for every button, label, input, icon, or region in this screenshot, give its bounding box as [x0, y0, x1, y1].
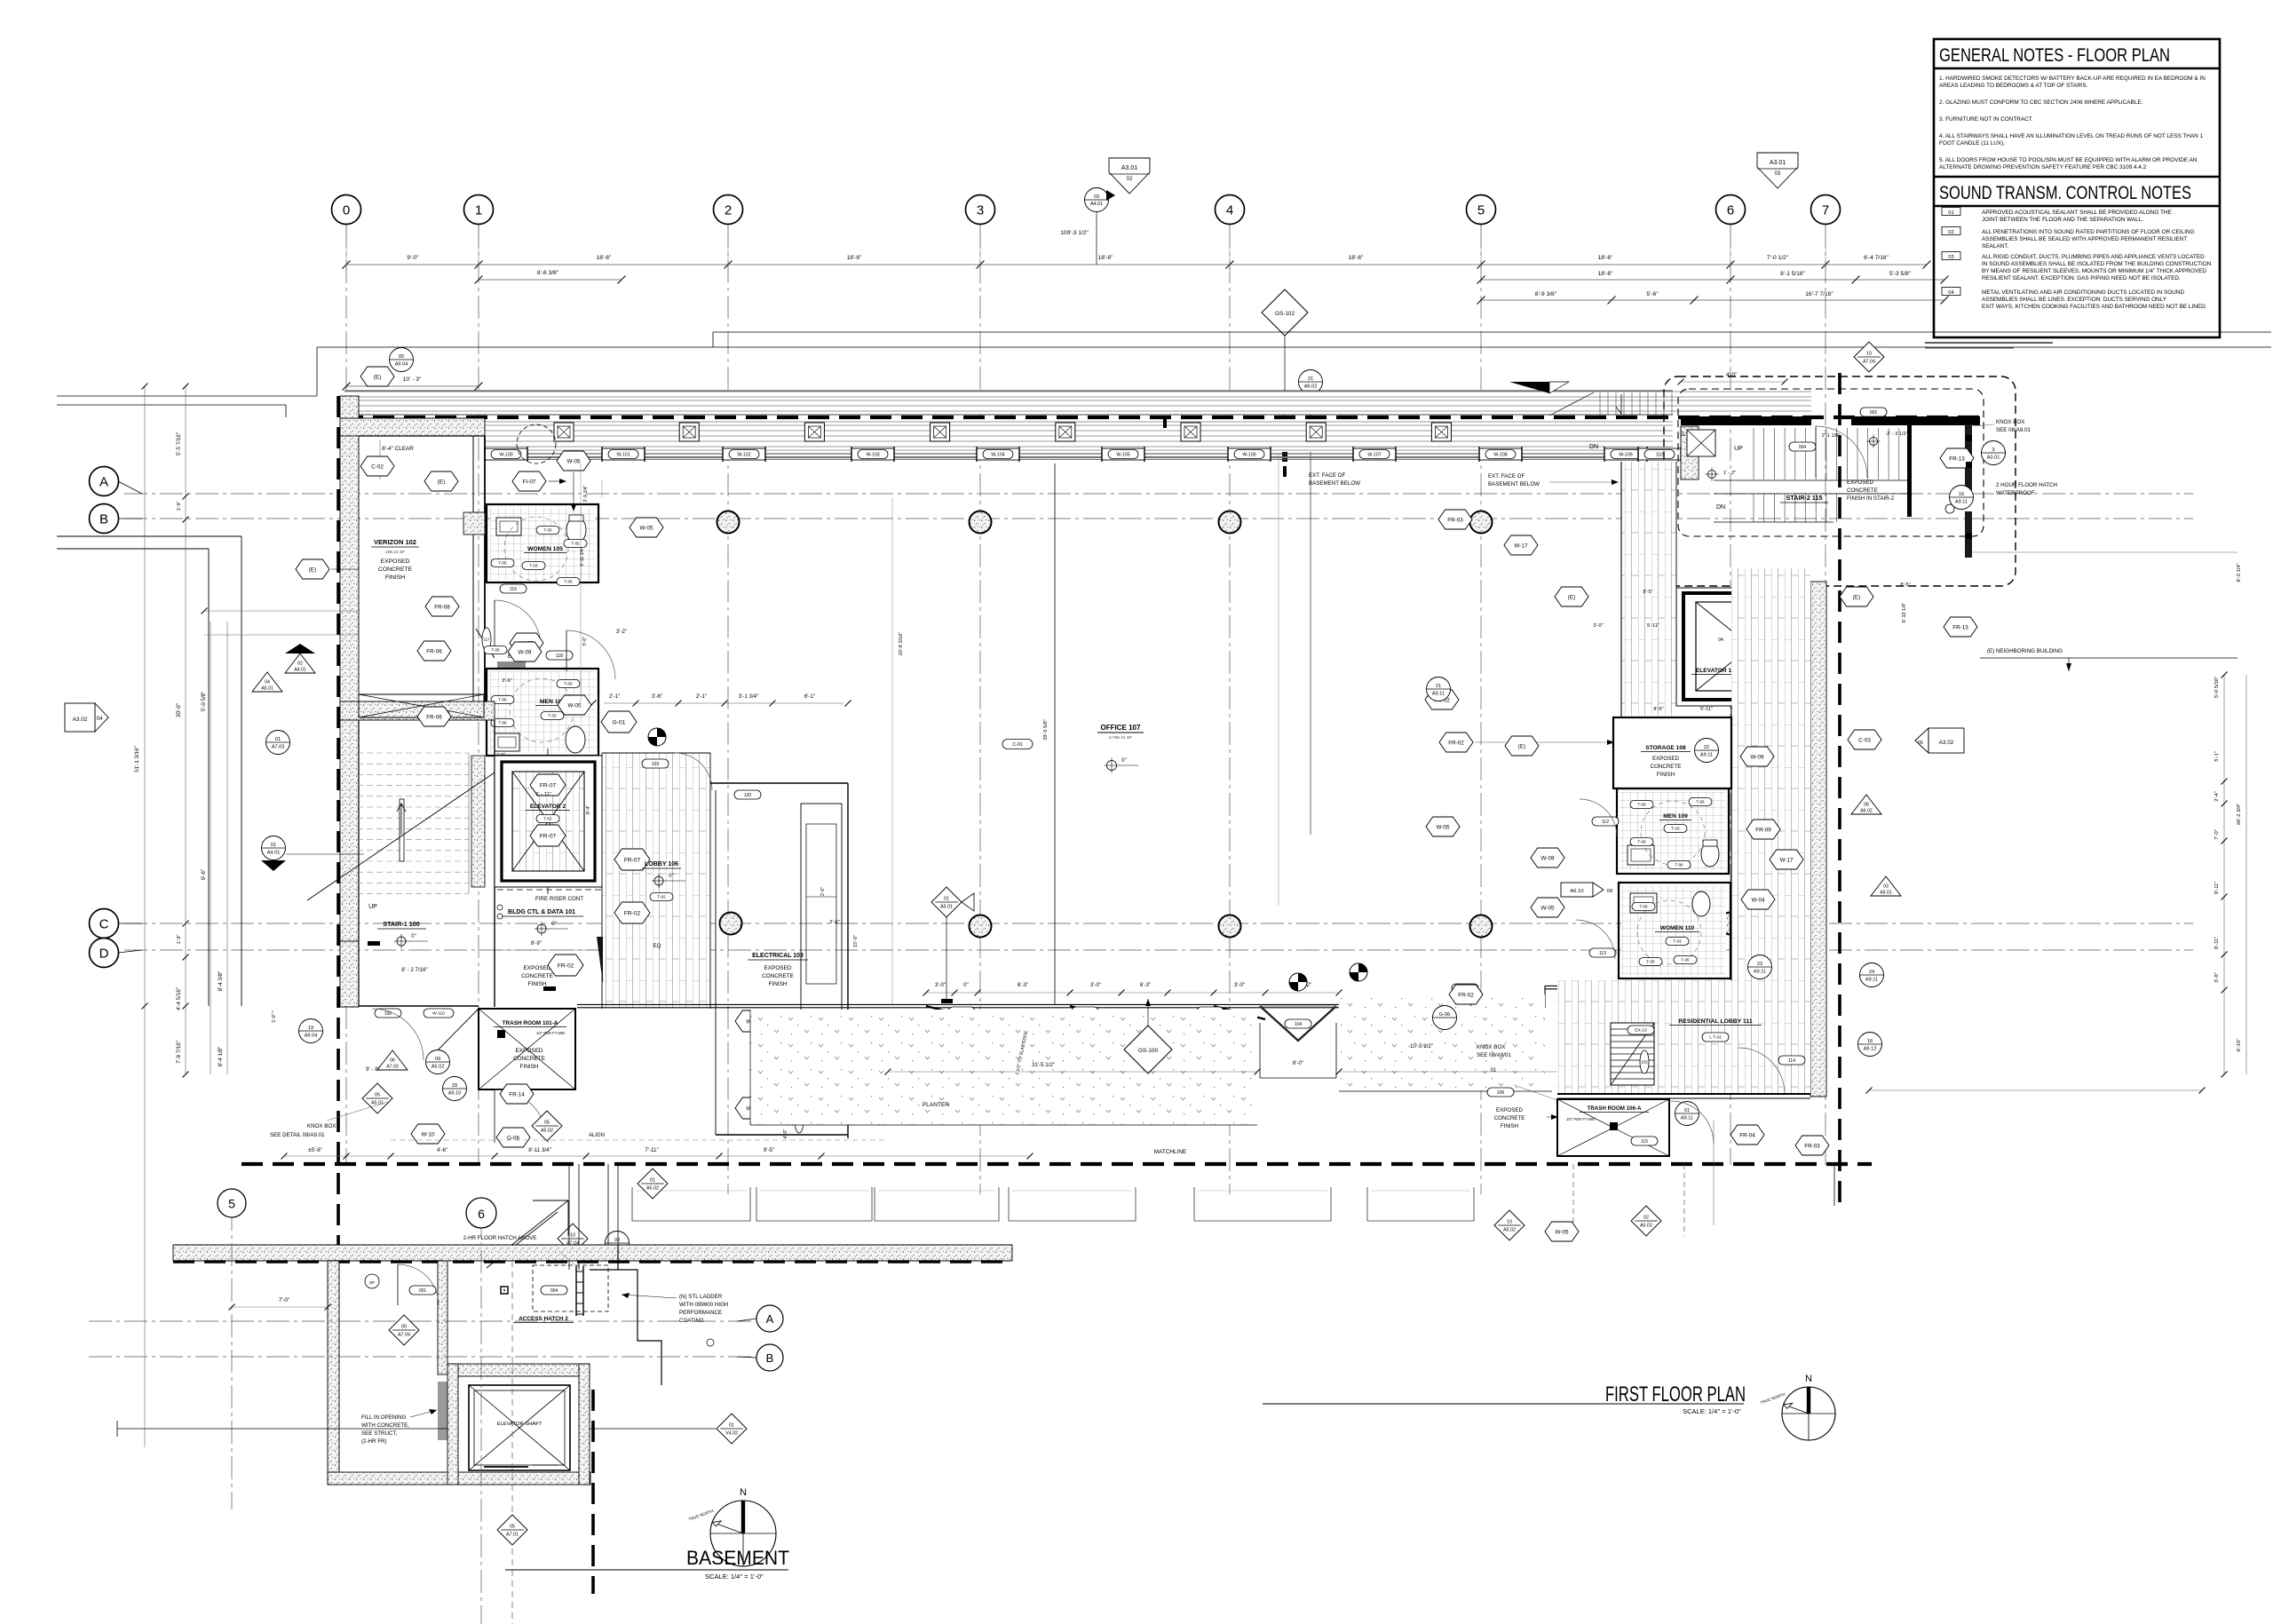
svg-text:16: 16 — [1959, 492, 1964, 497]
tag T-03 — [541, 712, 564, 720]
tag 104 — [1285, 1019, 1311, 1028]
svg-text:A4.01: A4.01 — [1090, 202, 1103, 207]
turning circle — [504, 517, 568, 581]
svg-text:T-06: T-06 — [498, 721, 507, 725]
tag C-01 — [1002, 740, 1033, 749]
section flag A3.01/02 — [1109, 158, 1150, 194]
tag W-09 — [1531, 848, 1564, 867]
grid bubble 2 — [714, 195, 743, 225]
svg-text:N: N — [1805, 1374, 1812, 1384]
svg-text:6'-1": 6'-1" — [804, 693, 815, 700]
tag W-09 — [1740, 747, 1774, 766]
dashed corner circle detail — [517, 424, 556, 463]
svg-text:A7.04: A7.04 — [398, 1333, 410, 1338]
svg-text:T-02: T-02 — [657, 895, 666, 899]
tag G-01 — [601, 711, 637, 733]
tag T-02 — [1763, 654, 1786, 661]
svg-text:6'-0": 6'-0" — [1293, 1060, 1303, 1066]
survey target — [397, 937, 406, 946]
svg-text:ELEVATOR 1: ELEVATOR 1 — [1696, 668, 1732, 674]
svg-text:09: 09 — [401, 1325, 407, 1330]
grid bubble 7 — [1811, 195, 1841, 225]
tag FR-08 — [425, 597, 459, 616]
svg-text:EXPOSED: EXPOSED — [516, 1048, 543, 1054]
keynote GS-102 — [1262, 289, 1308, 336]
svg-text:23: 23 — [1757, 962, 1762, 967]
svg-text:A9.11: A9.11 — [1865, 977, 1878, 982]
svg-text:T-06: T-06 — [1637, 840, 1646, 844]
tag EX-13 — [1628, 1026, 1654, 1034]
svg-text:(E) NEIGHBORING BUILDING: (E) NEIGHBORING BUILDING — [1987, 648, 2063, 654]
column circle — [970, 511, 992, 534]
tag 22/A9.11 — [1695, 739, 1719, 763]
svg-text:004: 004 — [550, 1288, 558, 1294]
svg-text:FR-14: FR-14 — [509, 1091, 525, 1097]
heavy dashed vertical right of basement — [591, 1390, 595, 1594]
right step wall — [590, 1270, 661, 1385]
svg-text:2 HOUR FLOOR HATCH: 2 HOUR FLOOR HATCH — [1996, 482, 2057, 488]
tag FR-02 — [1449, 985, 1483, 1004]
svg-text:9' - 8": 9' - 8" — [366, 1066, 380, 1073]
svg-text:FR-07: FR-07 — [540, 833, 557, 839]
svg-text:A9.11: A9.11 — [1700, 752, 1713, 757]
window head band — [345, 391, 1811, 415]
svg-text:UP: UP — [1734, 446, 1743, 452]
svg-text:WATERPROOF: WATERPROOF — [1996, 490, 2035, 496]
svg-text:3'-0": 3'-0" — [935, 982, 946, 988]
svg-text:A5.01: A5.01 — [940, 905, 953, 910]
svg-text:8'-11": 8'-11" — [2214, 937, 2220, 949]
svg-text:LOBBY 106: LOBBY 106 — [645, 861, 678, 867]
svg-text:OFFICE 107: OFFICE 107 — [1101, 724, 1141, 732]
stair rails — [503, 796, 509, 865]
svg-text:6'-4 7/16": 6'-4 7/16" — [1864, 255, 1889, 261]
window W-107 — [1353, 448, 1396, 460]
svg-text:01: 01 — [1948, 210, 1953, 216]
tag C-02 — [360, 456, 394, 476]
svg-text:4. ALL STAIRWAYS SHALL HA: 4. ALL STAIRWAYS SHALL HAVE AN ILLUMINAT… — [1939, 133, 2204, 139]
tag 106 — [1487, 1088, 1514, 1097]
svg-text:3'-0": 3'-0" — [1090, 982, 1101, 988]
tag T-06 — [1630, 801, 1653, 809]
svg-text:A9.10: A9.10 — [448, 1090, 462, 1096]
svg-text:FI-07: FI-07 — [523, 479, 536, 485]
svg-text:6'-3": 6'-3" — [1018, 982, 1028, 988]
svg-text:T-05: T-05 — [543, 528, 552, 533]
svg-text:W-05: W-05 — [1437, 824, 1450, 830]
svg-text:FOOT CANDLE (11 LUX).: FOOT CANDLE (11 LUX). — [1939, 140, 2005, 147]
svg-text:W-05: W-05 — [567, 458, 581, 464]
svg-text:0": 0" — [551, 922, 556, 927]
svg-text:3'-6": 3'-6" — [652, 693, 662, 700]
tag 120 — [734, 790, 761, 799]
svg-text:118: 118 — [556, 654, 563, 659]
grid bubble 4 — [1216, 195, 1245, 225]
svg-text:ALTERNATE DROWING PREVENTION S: ALTERNATE DROWING PREVENTION SAFETY FEAT… — [1939, 164, 2147, 170]
grid bubble 3 — [966, 195, 995, 225]
svg-text:05: 05 — [544, 1121, 550, 1126]
svg-text:W-09: W-09 — [1541, 855, 1555, 861]
svg-text:6: 6 — [478, 1207, 485, 1221]
tag 115 — [1631, 1137, 1658, 1145]
svg-text:EXPOSED: EXPOSED — [764, 965, 792, 971]
svg-text:A5.01: A5.01 — [1880, 891, 1892, 896]
svg-text:110: 110 — [1656, 452, 1663, 457]
svg-text:02: 02 — [297, 661, 303, 667]
svg-text:VERIZON 102: VERIZON 102 — [374, 538, 416, 546]
svg-text:7'-0 1/2": 7'-0 1/2" — [1767, 255, 1789, 261]
svg-text:FR-03: FR-03 — [1804, 1143, 1820, 1149]
STORAGE 108 — [1613, 717, 1731, 788]
tag 004 — [1789, 442, 1816, 451]
svg-text:117: 117 — [484, 638, 491, 642]
tag FR-03 — [1795, 1136, 1829, 1155]
tag 09/A7.04 diamond — [389, 1315, 419, 1345]
tag 04/A5.01 triangle — [252, 672, 282, 692]
svg-text:5'-6": 5'-6" — [1646, 291, 1659, 297]
tag FR-07 — [614, 849, 650, 870]
svg-text:5: 5 — [228, 1197, 235, 1211]
svg-text:T-06: T-06 — [491, 648, 500, 653]
svg-text:A3.01: A3.01 — [1770, 160, 1786, 166]
tag (E) — [424, 471, 458, 491]
svg-text:ALL RIGID CONDUIT, DUCTS, PLUM: ALL RIGID CONDUIT, DUCTS, PLUMBING PIPES… — [1982, 254, 2205, 260]
svg-text:(2-HR FR): (2-HR FR) — [361, 1438, 387, 1445]
north arrow compass — [710, 1501, 776, 1566]
svg-text:A9.04: A9.04 — [305, 1033, 318, 1038]
heavy dashed property east — [1838, 373, 1841, 1206]
svg-text:ASSEMBLIES SHALL BE LINES. EXC: ASSEMBLIES SHALL BE LINES. EXCEPTION: DU… — [1982, 297, 2167, 303]
svg-text:39'-5 5/8": 39'-5 5/8" — [1043, 719, 1049, 741]
svg-text:01: 01 — [1491, 1068, 1497, 1073]
tag W-05 — [630, 518, 663, 537]
north wall left wing — [340, 418, 485, 436]
roof outline lines — [713, 331, 2271, 333]
svg-text:SCALE: 1/4'' = 1'-0'': SCALE: 1/4'' = 1'-0'' — [705, 1573, 764, 1580]
column — [1306, 423, 1326, 441]
svg-text:FINISH: FINISH — [520, 1064, 539, 1070]
svg-text:FR-07: FR-07 — [624, 857, 641, 863]
svg-text:1/4" PER FT MIN: 1/4" PER FT MIN — [536, 1031, 565, 1035]
svg-text:9'-5": 9'-5" — [764, 1147, 774, 1153]
svg-text:A5.02: A5.02 — [1503, 1228, 1516, 1233]
tag T-06 — [1667, 861, 1691, 869]
svg-text:T-06: T-06 — [1675, 863, 1683, 867]
A3.02 04 flag left — [65, 703, 95, 732]
door arc stair2 — [1816, 426, 1867, 478]
svg-text:A5.02: A5.02 — [1640, 1224, 1652, 1229]
svg-text:JOINT BETWEEN THE FLOOR AND TH: JOINT BETWEEN THE FLOOR AND THE SEPARATI… — [1982, 217, 2143, 223]
svg-text:8'-11 3/4": 8'-11 3/4" — [528, 1147, 551, 1153]
tag FR-09 — [1572, 1010, 1606, 1029]
svg-text:001: 001 — [419, 1288, 427, 1294]
tag 06/A7.03 triangle — [377, 1050, 408, 1070]
tag W-104 — [983, 450, 1013, 459]
svg-text:ALIGN: ALIGN — [589, 1133, 605, 1138]
tag W-103 — [858, 450, 888, 459]
svg-text:16: 16 — [1867, 1039, 1873, 1044]
svg-text:SEE STRUCT,: SEE STRUCT, — [361, 1430, 398, 1437]
svg-text:A9.04: A9.04 — [395, 361, 408, 367]
tag 01/A7.03 — [266, 731, 290, 755]
svg-text:W-17: W-17 — [1780, 857, 1794, 863]
svg-text:8'-1 5/16": 8'-1 5/16" — [1780, 271, 1805, 277]
tag (E) — [1555, 587, 1588, 606]
svg-text:26'-2 3/4": 26'-2 3/4" — [2237, 804, 2242, 825]
svg-text:A4.01: A4.01 — [267, 850, 281, 855]
svg-text:09: 09 — [1607, 889, 1612, 894]
svg-text:A: A — [99, 475, 108, 490]
svg-text:30'-0": 30'-0" — [176, 703, 182, 717]
svg-text:20'-8 3/16": 20'-8 3/16" — [899, 632, 904, 656]
right secondary dimension chains — [1481, 279, 1944, 281]
tag 02/A5.02 diamond — [1631, 1206, 1661, 1236]
svg-text:16'-7 7/16": 16'-7 7/16" — [1805, 291, 1833, 297]
tag 3/A3.01 — [1982, 441, 2006, 465]
svg-text:TRASH ROOM 101-A: TRASH ROOM 101-A — [503, 1020, 558, 1026]
svg-text:W-100: W-100 — [499, 452, 512, 457]
svg-text:FR-07: FR-07 — [540, 782, 557, 788]
tag 08/A6.02 triangle — [1851, 795, 1881, 814]
stair-2 walls — [1681, 416, 1811, 425]
svg-text:T-06: T-06 — [498, 698, 507, 702]
svg-text:BASEMENT BELOW: BASEMENT BELOW — [1488, 481, 1540, 487]
tag W-109 — [1611, 450, 1641, 459]
basement door — [398, 1264, 439, 1305]
svg-text:1/4" PER FT MIN: 1/4" PER FT MIN — [1566, 1117, 1595, 1121]
tag 105 — [1640, 1050, 1649, 1073]
svg-text:GS-100: GS-100 — [1138, 1048, 1158, 1054]
svg-text:UP: UP — [368, 904, 377, 910]
rated shaft X-box — [359, 694, 484, 717]
svg-text:ELECTRICAL 103: ELECTRICAL 103 — [752, 953, 804, 959]
svg-text:CONCRETE: CONCRETE — [762, 973, 794, 979]
tag W-09 — [510, 633, 543, 653]
svg-text:RESIDENTIAL LOBBY 111: RESIDENTIAL LOBBY 111 — [1678, 1018, 1752, 1025]
tag 01/A5.01 diamond — [931, 887, 962, 917]
tag 10/A7.04 diamond — [1854, 342, 1884, 372]
tag 05/A5.01 diamond — [362, 1083, 392, 1113]
svg-text:8'-4 3/8": 8'-4 3/8" — [218, 971, 224, 992]
tag 05/A7.01 diamond — [497, 1515, 527, 1545]
ladder symbol — [575, 1266, 577, 1316]
svg-text:EXPOSED: EXPOSED — [381, 558, 410, 565]
svg-text:(E): (E) — [309, 566, 316, 573]
top dimension chain — [346, 264, 1927, 265]
svg-text:7'-9 7/16": 7'-9 7/16" — [176, 1041, 182, 1064]
svg-text:103: 103 — [652, 762, 660, 767]
svg-text:FINISH: FINISH — [1657, 772, 1675, 778]
svg-text:A5.02: A5.02 — [541, 1129, 553, 1134]
svg-text:A6.02: A6.02 — [1860, 809, 1873, 814]
column circle — [1219, 511, 1241, 534]
tag 01/V4.02 diamond — [717, 1414, 747, 1444]
column circle — [717, 511, 740, 534]
svg-text:FIRST FLOOR PLAN: FIRST FLOOR PLAN — [1605, 1382, 1746, 1406]
svg-text:T-02: T-02 — [543, 817, 552, 821]
svg-text:B: B — [766, 1351, 774, 1365]
svg-text:8'-5": 8'-5" — [1653, 707, 1663, 712]
svg-text:W-102: W-102 — [737, 452, 750, 457]
svg-text:10: 10 — [1866, 352, 1872, 357]
svg-text:2'-6": 2'-6" — [829, 920, 840, 925]
svg-text:04: 04 — [1948, 290, 1954, 296]
svg-text:6: 6 — [1727, 203, 1734, 218]
east concrete wall — [1810, 582, 1826, 1097]
tag W-101 — [608, 450, 638, 459]
svg-text:21: 21 — [1308, 376, 1313, 382]
svg-text:RESILIENT SEALANT. EXCEPTION:: RESILIENT SEALANT. EXCEPTION: GAS PIPING… — [1982, 275, 2181, 281]
svg-text:3'-8": 3'-8" — [2214, 972, 2220, 983]
quarter target symbol — [1289, 973, 1307, 991]
svg-text:ALL PENETRATIONS INTO SOUND RA: ALL PENETRATIONS INTO SOUND RATED PARTIT… — [1982, 229, 2195, 235]
svg-text:8' - 2 7/16": 8' - 2 7/16" — [401, 967, 428, 973]
svg-text:1'-9": 1'-9" — [177, 502, 182, 511]
svg-text:EXT. FACE OF: EXT. FACE OF — [1488, 473, 1525, 479]
tag 110 — [1644, 450, 1675, 459]
svg-text:7: 7 — [1822, 203, 1829, 218]
heavy dashed line over basement band — [173, 1260, 1012, 1264]
svg-text:A7.03: A7.03 — [272, 744, 285, 749]
svg-text:0: 0 — [343, 203, 350, 218]
svg-text:D: D — [99, 947, 109, 962]
svg-text:7'-0": 7'-0" — [2214, 829, 2220, 840]
svg-text:W-05: W-05 — [568, 702, 582, 709]
heavy dashed canopy line — [342, 416, 1982, 419]
svg-text:W-05: W-05 — [1556, 1229, 1569, 1235]
svg-text:±5'-8": ±5'-8" — [308, 1147, 322, 1153]
tag 24/A9.06 — [605, 799, 629, 823]
svg-text:1. HARDWIRED SMOKE DETECT: 1. HARDWIRED SMOKE DETECTORS W/ BATTERY … — [1939, 75, 2206, 82]
svg-text:8'-4 1/8": 8'-4 1/8" — [218, 1047, 224, 1067]
svg-text:3. FURNITURE NOT IN CONTR: 3. FURNITURE NOT IN CONTRACT. — [1939, 116, 2033, 123]
exterior stair treads — [1599, 392, 1601, 416]
svg-text:CONCRETE: CONCRETE — [1651, 764, 1682, 770]
tag T-06 — [1689, 798, 1712, 806]
tag 02/A4.01 triangle — [285, 654, 315, 673]
svg-text:03: 03 — [1883, 884, 1889, 890]
tag T-05 — [1674, 956, 1697, 964]
svg-text:18'-6": 18'-6" — [597, 255, 612, 261]
tag (E) — [1840, 587, 1873, 606]
tag 05/A9.04 — [390, 348, 414, 372]
svg-text:W-105: W-105 — [1116, 452, 1129, 457]
upper corridor plank — [1621, 462, 1676, 716]
svg-text:2'-1": 2'-1" — [609, 693, 620, 700]
quarter target symbol — [1350, 963, 1367, 981]
svg-text:9'-6": 9'-6" — [201, 869, 207, 880]
svg-text:BY MEANS OF RESILIENT SLEEVES,: BY MEANS OF RESILIENT SLEEVES, MOUNTS OR… — [1982, 268, 2206, 274]
svg-text:T-05: T-05 — [1681, 958, 1690, 963]
stair2 dashed boundary — [1664, 376, 2016, 586]
svg-text:10' - 3": 10' - 3" — [403, 376, 422, 383]
svg-text:FINISH IN STAIR-2: FINISH IN STAIR-2 — [1847, 495, 1895, 502]
tag FR-13 — [1944, 617, 1977, 637]
basement row grids — [89, 1320, 755, 1322]
grid bubble C — [118, 923, 142, 924]
svg-text:KNOX BOX: KNOX BOX — [1477, 1044, 1505, 1050]
svg-text:04: 04 — [97, 717, 103, 722]
svg-text:2'-4": 2'-4" — [2214, 791, 2220, 802]
svg-text:SEALANT.: SEALANT. — [1982, 243, 2008, 250]
svg-text:FILL IN OPENING: FILL IN OPENING — [361, 1414, 406, 1421]
toilet — [566, 517, 586, 543]
matchline — [242, 1162, 1872, 1166]
tag W-05 — [558, 695, 591, 715]
svg-text:GENERAL NOTES - FLOOR PLAN: GENERAL NOTES - FLOOR PLAN — [1939, 44, 2170, 66]
tag T-05 — [536, 527, 559, 535]
svg-text:STORAGE 108: STORAGE 108 — [1645, 745, 1686, 751]
svg-text:104: 104 — [1295, 1022, 1303, 1027]
north arrow compass — [1782, 1387, 1835, 1440]
svg-text:002: 002 — [1870, 410, 1878, 416]
svg-text:15'-0": 15'-0" — [853, 935, 859, 947]
svg-text:L T-02: L T-02 — [1709, 1035, 1722, 1041]
svg-text:SEE 08/A9/01: SEE 08/A9/01 — [1477, 1052, 1511, 1058]
svg-text:5. ALL DOORS FROM HOUSE T: 5. ALL DOORS FROM HOUSE TO POOL/SPA MUST… — [1939, 157, 2198, 163]
tag FR-02 — [548, 955, 583, 976]
tag FR-03 — [1438, 510, 1472, 529]
tag 10/A5.02 diamond — [1494, 1210, 1525, 1240]
tag T-05 — [491, 559, 514, 567]
sink — [1628, 845, 1654, 865]
svg-text:W-04: W-04 — [1752, 897, 1765, 903]
RESIDENTIAL LOBBY — [1557, 980, 1810, 1094]
tag W-107 — [1359, 450, 1390, 459]
tag W-05 — [1426, 817, 1460, 836]
svg-text:004: 004 — [1799, 445, 1807, 450]
svg-text:-2' - 3 1/2": -2' - 3 1/2" — [1885, 432, 1907, 437]
grid bubble 0 — [332, 195, 361, 225]
tag 124 — [1197, 1007, 1224, 1016]
tag T-03 — [1666, 938, 1689, 946]
svg-text:1: 1 — [475, 203, 482, 218]
svg-text:T-05: T-05 — [564, 580, 573, 584]
svg-text:-10'-5 1/2": -10'-5 1/2" — [1408, 1043, 1433, 1050]
tag FR-06 — [417, 641, 451, 661]
tag FR-06 — [417, 707, 451, 726]
svg-text:7'-0": 7'-0" — [279, 1297, 289, 1303]
toilet — [1692, 891, 1710, 916]
svg-text:SP: SP — [369, 1280, 375, 1285]
STAIR-1 — [340, 701, 495, 720]
svg-text:0": 0" — [411, 934, 416, 939]
svg-text:5'-0 5/8": 5'-0 5/8" — [201, 692, 207, 712]
svg-text:06: 06 — [390, 1058, 395, 1064]
quarter target symbol — [648, 728, 666, 746]
svg-text:4'-0": 4'-0" — [783, 1129, 788, 1139]
A6.10 flag — [1561, 883, 1593, 897]
svg-text:2'-1 1/8": 2'-1 1/8" — [1822, 433, 1840, 439]
tag W-11 — [735, 1010, 771, 1032]
svg-text:A9.11: A9.11 — [1955, 499, 1968, 504]
svg-text:A6.10: A6.10 — [1570, 889, 1583, 894]
grid bubble 1 — [464, 195, 494, 225]
WOMEN 105 restroom — [490, 507, 595, 580]
svg-text:05: 05 — [399, 354, 404, 360]
svg-text:EXPOSED: EXPOSED — [1847, 479, 1873, 486]
tag FR-02 — [614, 902, 650, 923]
tag FR-13 — [1940, 448, 1974, 468]
svg-text:CONCRETE: CONCRETE — [513, 1056, 545, 1062]
svg-text:09: 09 — [435, 1057, 440, 1062]
small ticks row B columns — [1163, 417, 1167, 428]
svg-text:5'-1": 5'-1" — [2214, 751, 2220, 762]
svg-text:T-03: T-03 — [529, 564, 538, 568]
tag FR-14 — [500, 1084, 534, 1104]
lines from plan to basement — [568, 1164, 570, 1270]
tag T-06 — [557, 680, 580, 688]
